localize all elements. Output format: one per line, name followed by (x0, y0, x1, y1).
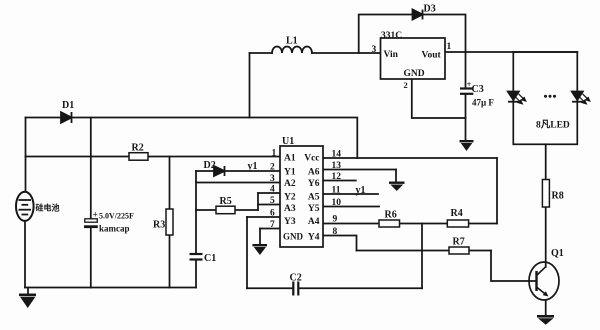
svg-text:Y4: Y4 (308, 233, 320, 243)
svg-text:D1: D1 (62, 100, 74, 111)
svg-text:R4: R4 (451, 208, 463, 219)
svg-text:3: 3 (372, 45, 377, 55)
svg-text:D2: D2 (204, 160, 216, 171)
svg-text:C3: C3 (472, 84, 484, 95)
svg-text:Y2: Y2 (284, 193, 296, 203)
svg-text:Y3: Y3 (284, 217, 296, 227)
svg-text:R3: R3 (153, 220, 165, 231)
svg-text:Q1: Q1 (551, 248, 564, 259)
svg-text:A2: A2 (284, 179, 296, 189)
svg-text:R2: R2 (132, 143, 144, 154)
svg-text:GND: GND (283, 232, 304, 242)
svg-text:kamcap: kamcap (99, 224, 130, 234)
svg-text:3: 3 (270, 174, 275, 184)
svg-text:47µ F: 47µ F (472, 98, 494, 108)
svg-text:Vcc: Vcc (304, 154, 319, 164)
svg-text:A5: A5 (308, 193, 320, 203)
svg-text:R6: R6 (385, 210, 397, 221)
svg-text:11: 11 (332, 186, 341, 196)
svg-text:Y6: Y6 (308, 179, 320, 189)
svg-text:A6: A6 (308, 168, 320, 178)
svg-text:R5: R5 (220, 196, 232, 207)
svg-text:y1: y1 (248, 161, 258, 172)
svg-text:Vout: Vout (422, 51, 442, 61)
svg-text:GND: GND (404, 69, 425, 79)
svg-text:9: 9 (333, 215, 338, 225)
svg-text:1: 1 (447, 42, 452, 52)
svg-text:6: 6 (270, 209, 275, 219)
svg-text:4: 4 (270, 185, 275, 195)
svg-text:A4: A4 (308, 217, 320, 227)
svg-text:1: 1 (272, 149, 277, 159)
svg-text:5: 5 (270, 196, 275, 206)
svg-text:10: 10 (332, 198, 342, 208)
svg-text:2: 2 (270, 163, 275, 173)
svg-text:A1: A1 (284, 154, 296, 164)
svg-text:y1: y1 (356, 185, 366, 196)
svg-text:A3: A3 (284, 204, 296, 214)
svg-text:Vin: Vin (384, 50, 399, 60)
svg-text:C1: C1 (204, 253, 216, 264)
svg-text:C2: C2 (290, 273, 302, 284)
svg-text:+: + (467, 80, 472, 89)
svg-text:U1: U1 (282, 136, 294, 147)
svg-text:L1: L1 (286, 36, 298, 47)
svg-text:14: 14 (332, 150, 342, 160)
svg-text:Y1: Y1 (284, 168, 296, 178)
svg-text:R8: R8 (552, 191, 564, 202)
svg-text:D3: D3 (424, 4, 436, 15)
svg-text:7: 7 (270, 220, 275, 230)
svg-text:8凡LED: 8凡LED (536, 120, 570, 131)
svg-text:331C: 331C (381, 31, 402, 41)
svg-text:2: 2 (404, 80, 408, 90)
svg-text:12: 12 (332, 172, 342, 182)
svg-text:8: 8 (333, 227, 338, 237)
svg-text:Y5: Y5 (308, 204, 320, 214)
svg-text:+: + (93, 211, 98, 221)
svg-text:5.0V/225F: 5.0V/225F (99, 212, 134, 221)
svg-text:R7: R7 (453, 237, 465, 248)
svg-text:硅电池: 硅电池 (36, 203, 60, 213)
svg-text:13: 13 (332, 161, 342, 171)
